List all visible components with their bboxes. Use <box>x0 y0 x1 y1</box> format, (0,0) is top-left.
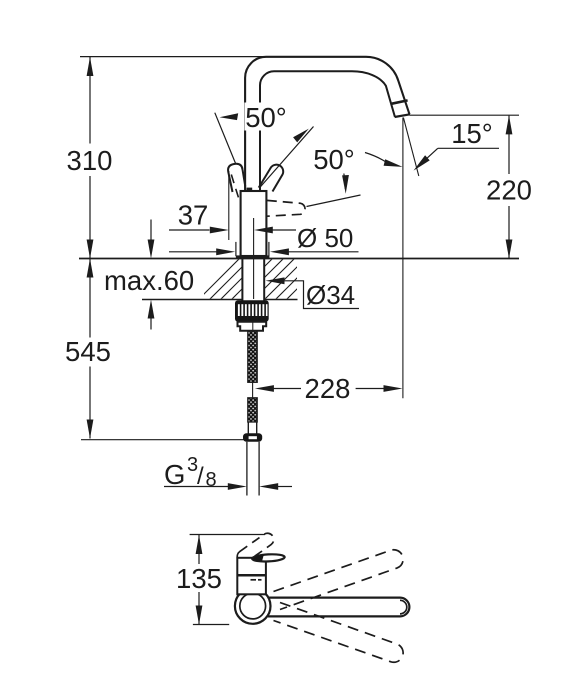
plan bottom extension line <box>193 624 229 626</box>
svg-text:/: / <box>197 463 204 490</box>
node label max.60 <box>104 265 194 296</box>
connection pipe below connector <box>247 442 259 496</box>
node 310/545 dimension line with arrows <box>87 57 94 439</box>
plan top extension line <box>190 534 265 536</box>
svg-text:max.60: max.60 <box>104 265 194 296</box>
plan swivel circle inner <box>240 593 266 619</box>
svg-text:37: 37 <box>178 200 209 231</box>
handle lever horizontal position (dashed) <box>267 200 305 216</box>
plan swivel circle outer <box>235 588 271 624</box>
spout aerator band <box>391 100 407 103</box>
node counter bottom line <box>142 299 298 301</box>
plan 135 dimension <box>196 535 203 625</box>
plan faucet body <box>237 558 266 595</box>
node label 545 <box>65 336 111 367</box>
handle pivot nub <box>247 188 253 192</box>
node label diameter 50 <box>297 223 353 253</box>
hose end tube <box>248 422 256 434</box>
plan dashed spout swung down <box>274 603 404 663</box>
node label 50 degrees lower <box>313 144 355 175</box>
mounting nut (knurled) <box>235 300 269 321</box>
handle lever upright-right position <box>259 165 284 192</box>
svg-text:50°: 50° <box>313 144 355 175</box>
svg-text:Ø34: Ø34 <box>306 280 355 310</box>
svg-text:135: 135 <box>176 563 222 594</box>
node counter top line <box>79 258 519 260</box>
plan spout capsule solid <box>266 598 409 617</box>
node diameter 50 dimension <box>169 248 359 255</box>
node diameter 34 leader <box>266 277 360 308</box>
node label G 3/8 <box>164 454 217 491</box>
node water stream vertical line <box>402 118 404 399</box>
flexible hose thin middle line <box>252 382 254 398</box>
handle lever upright-left position <box>228 164 245 192</box>
spout end cut line <box>395 114 410 117</box>
svg-text:Ø 50: Ø 50 <box>297 223 353 253</box>
mounting adapter steps <box>238 322 267 331</box>
plan dashed handle position <box>237 533 273 562</box>
flexible hose braided segment 1 <box>248 331 257 382</box>
plan handle paddle <box>252 554 285 563</box>
node label 220 <box>486 175 532 206</box>
plan dashed spout swung up <box>274 550 404 610</box>
wire: top extension line at spout top level <box>80 56 273 58</box>
node 37 dimension <box>169 171 296 240</box>
faucet body (cartridge housing) <box>241 191 267 256</box>
node label 228 <box>305 373 351 404</box>
node 15 degree dimension <box>365 148 499 170</box>
faucet base flange <box>236 242 270 258</box>
svg-text:228: 228 <box>305 373 351 404</box>
node max.60 dimension <box>148 220 155 330</box>
plan label 135 <box>176 563 222 594</box>
mounting shank below counter <box>242 259 264 302</box>
svg-text:15°: 15° <box>451 118 493 149</box>
node G 3/8 dimension <box>164 483 292 490</box>
spout tube outer wall <box>245 57 409 192</box>
node 228 dimension <box>255 385 403 392</box>
flexible hose braided segment 2 <box>248 398 257 422</box>
spout tube inner wall <box>260 71 395 192</box>
svg-text:220: 220 <box>486 175 532 206</box>
node 545 bottom extension line <box>81 439 248 441</box>
node hatching of counter cross-section <box>196 254 332 302</box>
hose connector nut G3/8 <box>243 433 262 442</box>
svg-text:545: 545 <box>65 336 111 367</box>
node 50 degree dimension lines (handle swing, upper) <box>215 113 314 188</box>
node label 310 <box>67 145 113 176</box>
node label 15 degrees <box>451 118 493 149</box>
svg-text:50°: 50° <box>245 102 287 133</box>
node 220 dimension <box>410 115 520 258</box>
node label 50 degrees upper with white backing over pipe <box>244 102 290 133</box>
svg-text:310: 310 <box>67 145 113 176</box>
svg-text:8: 8 <box>206 469 217 491</box>
node 15 degree slant line <box>403 118 418 177</box>
node 50 degree dimension (handle swing, lower) <box>307 174 361 207</box>
svg-text:G: G <box>164 459 185 490</box>
node label diameter 34 <box>306 280 355 310</box>
handle lever hidden edge (dashed) <box>231 175 239 202</box>
node label 37 <box>178 200 209 231</box>
node faucet center line <box>253 218 255 299</box>
